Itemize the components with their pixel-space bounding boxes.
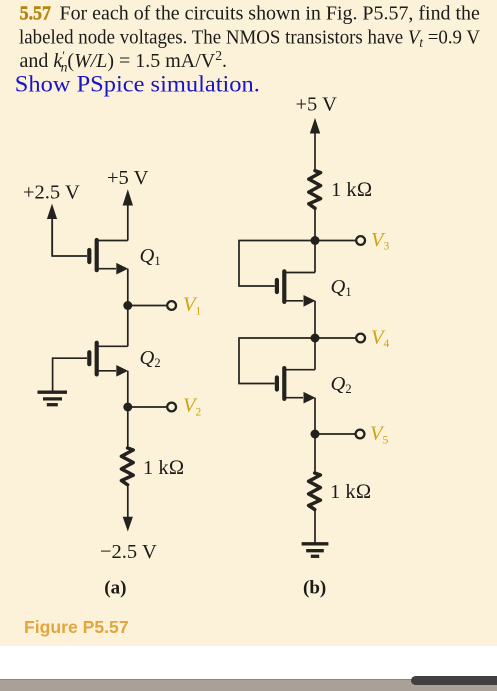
svg-text:1 kΩ: 1 kΩ — [330, 481, 371, 503]
svg-text:(b): (b) — [303, 577, 326, 598]
wire: Q1 source down to node V1 — [127, 269, 129, 306]
svg-text:and k′n(W/L) = 1.5 mA/V2.: and k′n(W/L) = 1.5 mA/V2. — [20, 48, 228, 75]
svg-text:Q1: Q1 — [331, 276, 352, 299]
svg-text:−2.5 V: −2.5 V — [100, 541, 157, 563]
resistor 1 kOhm (a) — [121, 448, 133, 485]
wire: V1 down to Q2 drain — [127, 306, 129, 347]
Q2 source arrowhead (a) — [116, 365, 128, 377]
Figure P5.57 caption — [24, 617, 129, 638]
node V4 junction dot — [311, 334, 320, 343]
svg-text:Q2: Q2 — [331, 373, 352, 396]
Q1 source arrowhead (b) — [304, 295, 316, 307]
text line 1 — [60, 2, 480, 24]
V3 terminal circle — [356, 236, 365, 245]
node V2 junction dot — [123, 403, 132, 412]
svg-text:5.57: 5.57 — [20, 3, 52, 25]
V5 terminal circle — [356, 430, 365, 439]
resistor 1 kOhm lower (b) — [309, 473, 321, 510]
wire: V2 down to resistor — [127, 407, 129, 449]
text line 3 — [20, 48, 228, 75]
bottom scrollbar track — [0, 679, 497, 691]
Q1 source arrowhead (a) — [116, 263, 128, 275]
svg-text:1 kΩ: 1 kΩ — [143, 457, 184, 479]
svg-text:+2.5 V: +2.5 V — [23, 182, 80, 204]
wire: Q1 gate feedback loop (b) — [239, 241, 315, 287]
node V1 junction dot — [123, 301, 132, 310]
svg-text:Q1: Q1 — [140, 245, 161, 268]
svg-text:Show PSpice simulation.: Show PSpice simulation. — [15, 72, 260, 97]
wire: resistor to ground (b) — [314, 510, 316, 543]
resistor 1 kOhm upper (b) — [309, 171, 321, 209]
+2.5 V supply arrow (a) — [47, 204, 57, 256]
svg-text:Q2: Q2 — [140, 347, 161, 370]
wire: Q1 source down to node V4 — [314, 301, 316, 338]
transistor Q1 (b) — [277, 271, 315, 302]
ground symbol (b) — [302, 544, 329, 557]
wire: V5 down to resistor — [314, 434, 316, 473]
transistor Q1 (a) — [89, 240, 128, 270]
svg-text:V5: V5 — [370, 423, 389, 447]
wire: Q2 source down to node V2 — [127, 371, 129, 407]
text line 2 — [19, 26, 480, 50]
wire: V4 to terminal — [315, 337, 357, 339]
transistor Q2 (b) — [277, 368, 315, 399]
svg-text:V4: V4 — [371, 326, 390, 350]
wire: V2 to terminal — [128, 406, 168, 408]
V2 terminal circle — [167, 403, 176, 412]
wire: V5 to terminal — [315, 433, 356, 435]
transistor Q2 (a) — [89, 343, 128, 375]
wire: Q1 drain up to V3 — [314, 241, 316, 273]
V4 terminal circle — [356, 334, 365, 343]
wire: V1 to terminal — [128, 305, 168, 307]
-2.5 V supply arrow (a) — [123, 517, 133, 532]
wire: resistor down to node V3 — [314, 209, 316, 241]
wire: resistor to -2.5V arrow — [127, 487, 129, 519]
+5 V supply arrow (b) — [310, 118, 320, 169]
wire: gate of Q2 to ground — [53, 358, 87, 390]
wire: V3 to terminal — [315, 240, 357, 242]
svg-text:V3: V3 — [371, 229, 390, 253]
svg-text:labeled node voltages. The NMO: labeled node voltages. The NMOS transist… — [19, 26, 480, 50]
Show PSpice simulation link — [15, 72, 260, 97]
bottom scrollbar thumb — [411, 676, 497, 685]
svg-text:V2: V2 — [183, 395, 202, 419]
ground symbol (a) — [38, 392, 68, 405]
problem number 5.57 — [20, 3, 52, 25]
svg-text:1 kΩ: 1 kΩ — [331, 179, 372, 201]
+5 V supply arrow (a) — [123, 189, 133, 240]
svg-text:+5 V: +5 V — [107, 167, 149, 189]
svg-text:For each of the circuits shown: For each of the circuits shown in Fig. P… — [60, 2, 480, 24]
wire: Q2 source down to node V5 — [314, 398, 316, 434]
svg-text:V1: V1 — [183, 294, 202, 318]
node V5 junction dot — [311, 430, 320, 439]
wire: Q2 gate feedback loop (b) — [239, 338, 315, 384]
Q2 source arrowhead (b) — [304, 392, 316, 404]
wire: Q2 drain up to V4 — [314, 338, 316, 370]
svg-text:(a): (a) — [104, 577, 126, 598]
svg-text:+5 V: +5 V — [296, 94, 338, 116]
node V3 junction dot — [311, 236, 320, 245]
V1 terminal circle — [167, 301, 176, 310]
wire: gate of Q1 to +2.5V arrow — [52, 221, 87, 256]
